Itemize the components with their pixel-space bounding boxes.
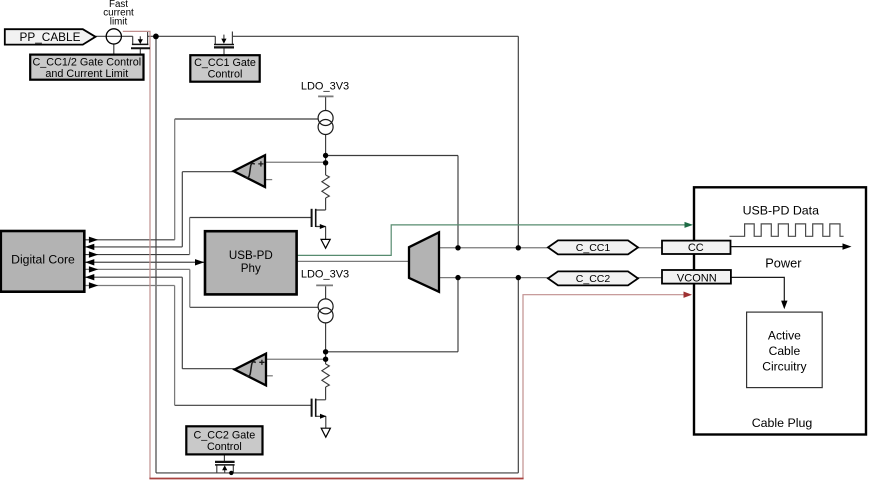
svg-text:Cable: Cable [769, 344, 801, 358]
svg-text:C_CC2: C_CC2 [576, 273, 611, 285]
svg-text:C_CC1/2 Gate Control: C_CC1/2 Gate Control [32, 57, 141, 69]
svg-text:Control: Control [208, 68, 243, 80]
svg-text:Cable Plug: Cable Plug [752, 416, 813, 430]
svg-text:LDO_3V3: LDO_3V3 [301, 268, 349, 280]
svg-text:C_CC1: C_CC1 [576, 242, 611, 254]
svg-text:LDO_3V3: LDO_3V3 [301, 80, 349, 92]
svg-text:USB-PD Data: USB-PD Data [743, 204, 820, 218]
svg-text:limit: limit [110, 16, 128, 27]
svg-text:PP_CABLE: PP_CABLE [20, 30, 81, 44]
svg-text:Digital Core: Digital Core [11, 252, 75, 266]
svg-text:and Current Limit: and Current Limit [45, 68, 128, 80]
svg-text:Power: Power [765, 255, 802, 270]
svg-text:C_CC1 Gate: C_CC1 Gate [194, 57, 256, 69]
svg-text:Active: Active [768, 329, 801, 343]
svg-text:VCONN: VCONN [677, 273, 717, 285]
svg-text:Circuitry: Circuitry [762, 360, 807, 374]
svg-text:Control: Control [207, 441, 242, 453]
svg-text:CC: CC [688, 242, 704, 254]
svg-text:USB-PD: USB-PD [229, 249, 273, 262]
svg-text:Phy: Phy [241, 262, 261, 275]
svg-text:C_CC2 Gate: C_CC2 Gate [193, 429, 255, 441]
